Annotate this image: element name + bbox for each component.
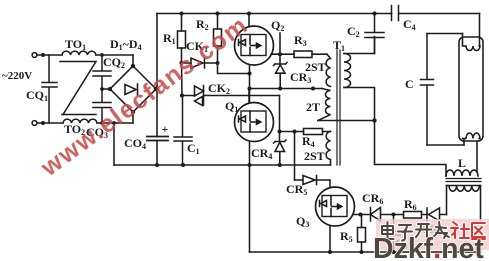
MOSFET Q1: [235, 103, 274, 142]
tube filament top: [463, 34, 481, 51]
svg-text:2T: 2T: [306, 100, 320, 114]
wire top DC rail: [157, 13, 480, 15]
watermark dzkf.net: [373, 233, 484, 261]
transformer T1 winding 2ST bottom: [326, 132, 330, 166]
wire bottom rail: [250, 251, 481, 253]
wire Q3 source down: [329, 226, 331, 252]
wire CR4 node to R4 node: [280, 131, 295, 133]
diode CK1: [182, 58, 218, 68]
wire bridge left vertex to cap midpoint: [102, 88, 110, 90]
svg-text:2ST: 2ST: [305, 60, 326, 74]
transformer T1 secondary winding: [344, 54, 351, 88]
wire CR7 to heater winding: [446, 186, 448, 215]
inductor L: [446, 170, 478, 176]
wire C2 node down to lamp circuit: [375, 121, 447, 177]
resistor R3: [294, 51, 327, 58]
fluorescent tube: [459, 37, 483, 141]
svg-text:C: C: [405, 77, 414, 91]
wire Q3 to CR6 row: [354, 214, 370, 216]
MOSFET Q2: [235, 26, 274, 65]
capacitor C2: [365, 14, 384, 54]
bridge rectifier D1~D4: [110, 66, 156, 112]
wire CR5 to Q3: [329, 180, 331, 187]
heater transformer secondary: [447, 186, 481, 192]
wire CK1 node to midpoint: [218, 63, 250, 74]
wire Q2 source to R3 node: [271, 33, 294, 54]
resistor R2: [214, 14, 222, 64]
MOSFET Q3: [316, 187, 355, 226]
wire bridge right vertex to DC+ column: [156, 88, 157, 90]
wire bridge top to AC rail: [132, 55, 134, 66]
terminal bottom-left AC input: [32, 121, 37, 126]
choke core symbol: [60, 62, 96, 115]
wire L right to tube: [476, 139, 478, 173]
svg-text:~220V: ~220V: [2, 70, 32, 82]
diac CK2: [182, 86, 280, 106]
capacitor CQ2: [93, 55, 111, 89]
svg-text:2ST: 2ST: [304, 149, 325, 163]
wire secondary bottom hook: [344, 88, 375, 121]
wire tube bottom-left pin to C column: [427, 144, 464, 146]
wire heater secondary right to bottom rail: [480, 186, 482, 253]
wire Q2 drain: [248, 14, 250, 27]
resistor R4: [295, 129, 331, 135]
wire top AC rail: [37, 54, 133, 56]
watermark box bottom right: [376, 219, 489, 250]
resistor R1: [178, 14, 186, 64]
svg-text:L: L: [458, 156, 466, 170]
wire R1 column down: [181, 63, 184, 96]
svg-text:Dzkf.net: Dzkf.net: [373, 233, 484, 261]
svg-text:+: +: [162, 122, 169, 136]
zener CR3: [274, 54, 288, 88]
diode CR6: [371, 208, 394, 222]
wire R4 node down to CR5: [294, 132, 296, 181]
capacitor C lamp: [421, 34, 434, 146]
inductor TO1: [62, 51, 96, 55]
wire bottom AC rail: [37, 122, 133, 124]
wire 2T to C2 node: [318, 120, 375, 122]
diode CR7: [427, 208, 447, 221]
zener CR4: [274, 132, 287, 166]
wire diac output to CR4 column: [279, 96, 281, 132]
resistor R6: [394, 212, 428, 219]
wire half-bridge midpoint column: [249, 65, 251, 103]
resistor R5: [358, 215, 366, 253]
watermark diagonal www.elecfans.com: [35, 11, 253, 183]
tube filament bottom: [463, 133, 481, 145]
terminal top-left AC input: [32, 53, 37, 58]
svg-text:D1~D4: D1~D4: [110, 37, 142, 52]
transformer T1 winding 2ST top: [326, 54, 330, 86]
capacitor CO4 electrolytic: [147, 137, 168, 141]
wire tube top-left pin to C column: [427, 33, 463, 35]
capacitor CQ1: [42, 55, 57, 123]
wire neutral to DC- rail: [113, 123, 115, 165]
capacitor C4: [392, 6, 399, 21]
capacitor C3: [388, 215, 400, 253]
transformer T1 winding 2T: [318, 89, 331, 121]
wire DC- rail: [114, 164, 331, 166]
wire top rail right corner down to tube: [479, 14, 481, 47]
wire secondary top hook to C2: [344, 37, 375, 54]
capacitor CQ3: [93, 89, 111, 123]
transformer T1 core: [337, 50, 340, 165]
capacitor C1: [174, 96, 192, 166]
watermark chinese text dianzi kaifa shequ: [382, 222, 485, 241]
diode CR5: [295, 176, 331, 185]
heater transformer core: [446, 179, 481, 182]
inductor TO2: [63, 119, 97, 123]
wire midpoint to 2T: [250, 88, 323, 90]
wire Q1 source down: [249, 142, 251, 166]
wire DC- to bottom rail: [249, 165, 251, 252]
wire bridge bottom to AC rail: [132, 112, 134, 123]
wire DC+ column: [156, 14, 158, 166]
wire Q1 top lead: [248, 89, 250, 103]
